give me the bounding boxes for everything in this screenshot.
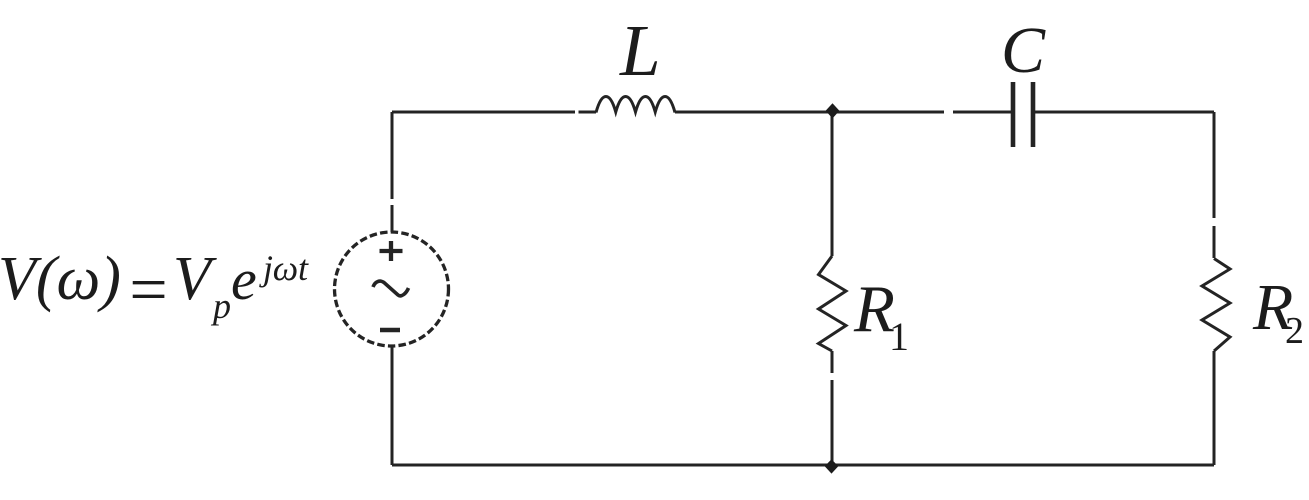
- svg-text:C: C: [1001, 14, 1046, 87]
- svg-text:p: p: [210, 286, 231, 326]
- svg-text:V(ω): V(ω): [0, 245, 121, 313]
- svg-text:=: =: [125, 251, 171, 327]
- svg-text:L: L: [619, 10, 661, 91]
- svg-text:1: 1: [889, 314, 909, 359]
- svg-text:V: V: [173, 245, 217, 313]
- svg-text:2: 2: [1285, 310, 1304, 352]
- svg-text:e: e: [231, 247, 257, 312]
- svg-text:jωt: jωt: [259, 248, 309, 288]
